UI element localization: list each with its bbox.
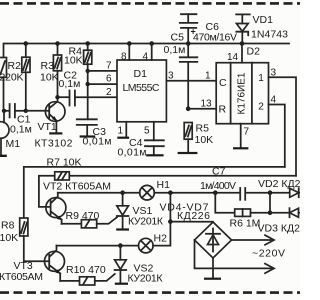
wire pin4 stem <box>151 44 153 61</box>
wire riser W1 to H2 and bridge <box>153 193 170 246</box>
resistor R5 <box>184 123 192 152</box>
label R9 470 <box>66 210 100 222</box>
svg-text:14: 14 <box>227 52 239 63</box>
zener diode VD1 1N4743 <box>236 14 250 43</box>
node VD2 R6 top <box>268 190 273 195</box>
op-amp timer D1 LM555C box <box>117 60 166 122</box>
frame bottom dashed border <box>0 291 300 294</box>
svg-text:VT2 КТ605АМ: VT2 КТ605АМ <box>43 181 111 193</box>
thyristor VS1 <box>117 193 129 229</box>
label 1м/400V <box>200 180 236 192</box>
wire pin8 stem <box>128 44 130 61</box>
label 0,01м C4 <box>118 147 147 159</box>
label C4 <box>129 137 143 149</box>
label H1 <box>157 179 171 191</box>
wire pin5 stem D1 <box>153 122 155 141</box>
svg-text:VD1: VD1 <box>253 14 274 26</box>
ground bridge <box>204 278 221 280</box>
label КД226 bridge <box>177 210 210 222</box>
svg-text:R7 10K: R7 10K <box>47 157 82 169</box>
node rail-VD1-pin14 <box>240 41 245 46</box>
wire pin3 D1 to pin1 C D2 <box>166 80 216 82</box>
svg-text:М1: М1 <box>6 138 21 150</box>
svg-text:0,1м: 0,1м <box>59 78 81 90</box>
label VT2 КТ605АМ <box>43 181 111 193</box>
svg-text:R3: R3 <box>41 60 55 72</box>
svg-text:R: R <box>219 104 227 116</box>
wire bridge right to mains arrow 1 <box>232 235 275 245</box>
label 10K R8 <box>0 232 18 244</box>
label VD3 КД226 <box>258 223 312 235</box>
svg-text:D1: D1 <box>134 68 148 80</box>
node rail-R4 <box>85 41 90 46</box>
svg-text:VT1: VT1 <box>38 121 57 133</box>
wire R1 to C1 node <box>3 77 5 111</box>
svg-text:1: 1 <box>205 71 211 82</box>
label C7 <box>212 166 226 178</box>
svg-text:0,1м: 0,1м <box>164 44 186 56</box>
wire R6 riser from W1 <box>215 193 234 213</box>
label C5 <box>171 32 185 44</box>
svg-text:КД226: КД226 <box>177 210 210 222</box>
node W1 R6 riser <box>213 190 218 195</box>
svg-text:4: 4 <box>143 52 149 63</box>
capacitor C5 <box>180 44 198 109</box>
label pin 3 out D2 <box>271 68 277 79</box>
node rail-C5C6 <box>186 41 191 46</box>
label C input D2 <box>219 77 227 89</box>
label LM555C <box>123 82 160 94</box>
svg-text:R9 470: R9 470 <box>66 210 100 222</box>
wire C1 to VT1 base <box>26 110 49 112</box>
diode VD2 <box>290 188 300 197</box>
svg-text:0,01м: 0,01м <box>83 136 112 148</box>
wire VD2-VD3 vertical <box>269 193 271 213</box>
wire riser to bridge top <box>170 221 213 223</box>
node rail-R2 <box>24 41 29 46</box>
wire output2 D2 to line A <box>269 105 285 167</box>
ground VS2 <box>115 283 128 285</box>
label 470м/16V <box>193 32 237 44</box>
transistor VT2 <box>46 193 66 224</box>
lamp H1 <box>140 185 155 200</box>
label R2 <box>8 60 22 72</box>
transistor VT1 <box>45 97 65 132</box>
label R4 <box>69 46 83 58</box>
svg-text:C7: C7 <box>212 166 226 178</box>
label pin 7 D2 <box>244 127 250 138</box>
svg-text:6: 6 <box>106 74 112 85</box>
ground R5 <box>178 152 198 154</box>
svg-text:КУ201К: КУ201К <box>128 273 164 285</box>
ground VS1 <box>116 228 129 230</box>
label R6 1M <box>230 218 261 230</box>
label 10K R5 <box>195 134 214 146</box>
node R4 line pin7 <box>86 69 90 73</box>
lamp H2 <box>139 238 154 253</box>
resistor R2 <box>22 44 30 111</box>
wire VT3 collector row to H2 <box>57 245 139 247</box>
label D2 <box>247 46 261 58</box>
ground pin1 D1 <box>117 137 129 139</box>
node riser bridge tap <box>168 219 173 224</box>
svg-text:4: 4 <box>271 95 277 106</box>
node C5 R5 pin13 <box>186 107 191 112</box>
svg-text:10K: 10K <box>0 232 18 244</box>
node R4 line pin6 <box>86 82 90 86</box>
svg-text:VT3: VT3 <box>14 260 33 272</box>
wire pin13 D2 <box>188 108 216 110</box>
label C2 <box>64 70 78 82</box>
svg-text:R2: R2 <box>8 60 22 72</box>
label 0,1м C1 <box>10 124 32 136</box>
wire pin7 D1 <box>88 70 117 72</box>
bridge rectifier VD4-VD7 diamond <box>195 222 232 258</box>
svg-text:D2: D2 <box>247 46 261 58</box>
wire VT2 emitter to R9 <box>62 223 82 225</box>
svg-text:КТ605АМ: КТ605АМ <box>0 271 43 283</box>
resistor R10 <box>80 277 95 285</box>
label 10K R4 <box>64 55 83 67</box>
node VS2 anode <box>118 243 123 248</box>
label pin 1 D2 <box>205 71 211 82</box>
label VD2 КД226 <box>258 178 312 190</box>
capacitor C2 <box>58 91 118 106</box>
label КТ3102 <box>35 138 73 150</box>
thyristor VS2 <box>115 246 127 283</box>
ground VT1 emitter <box>49 132 62 134</box>
label VT1 <box>38 121 57 133</box>
svg-text:R10 470: R10 470 <box>66 264 106 276</box>
svg-text:R8: R8 <box>1 220 15 232</box>
label pin 2 D1 <box>106 87 112 98</box>
node VS1 anode <box>120 190 125 195</box>
svg-text:VD2 КД226: VD2 КД226 <box>258 178 300 190</box>
wire pin7 stem D2 <box>240 124 242 148</box>
wire pin6 D1 <box>88 83 117 85</box>
label 1N4743 <box>251 29 288 41</box>
wire output1 D2 to line B <box>269 77 297 176</box>
svg-text:5: 5 <box>144 126 150 137</box>
svg-text:КУ201К: КУ201К <box>128 216 164 228</box>
ground C4 <box>146 154 163 156</box>
svg-text:470м/16V: 470м/16V <box>193 32 237 44</box>
svg-text:10K: 10K <box>40 72 59 84</box>
wire R10 to VS2 gate <box>95 274 115 281</box>
svg-text:2: 2 <box>258 102 264 113</box>
label КУ201К VS1 <box>128 216 164 228</box>
wire pin14 stem D2 <box>241 44 243 63</box>
svg-text:8: 8 <box>121 52 127 63</box>
svg-text:R6 1M: R6 1M <box>230 218 261 230</box>
wire bridge left to mains arrow 2 <box>195 240 275 273</box>
label 220K <box>0 72 24 84</box>
label C3 <box>93 126 107 138</box>
counter D2 K176IE1 box <box>216 63 268 124</box>
label pin 4 out D2 <box>271 95 277 106</box>
label КТ605АМ VT3 <box>0 271 43 283</box>
resistor R7 <box>55 172 70 180</box>
label R5 <box>196 123 210 135</box>
frame top dashed border <box>0 2 300 5</box>
svg-text:1: 1 <box>258 73 264 84</box>
wire pin1 stem D1 <box>125 122 127 137</box>
label + C6 <box>191 27 196 37</box>
capacitor C4 <box>145 140 164 154</box>
svg-text:7: 7 <box>106 61 112 72</box>
label pin 13 D2 <box>201 99 213 110</box>
resistor R9 <box>81 220 96 228</box>
label 0,1м C5 <box>164 44 186 56</box>
svg-text:LM555C: LM555C <box>123 82 160 94</box>
label VS2 <box>134 263 154 275</box>
label pin 4 <box>143 52 149 63</box>
transistor VT3 <box>45 246 65 281</box>
label C6 <box>206 21 220 33</box>
node R3-C2-VT1 collector <box>55 95 59 99</box>
label КУ201К VS2 <box>128 273 164 285</box>
resistor R8 <box>20 218 50 261</box>
diode VD3 <box>270 208 300 217</box>
wire bridge bottom to ground <box>212 258 214 278</box>
label pin 5 D1 <box>144 126 150 137</box>
resistor R3 <box>53 44 61 98</box>
svg-text:H1: H1 <box>157 179 171 191</box>
microphone M1 <box>0 111 9 157</box>
svg-text:H2: H2 <box>154 233 168 245</box>
svg-text:1м/400V: 1м/400V <box>200 180 236 192</box>
resistor R1 (clipped at left edge) <box>0 58 7 78</box>
node C1 left <box>2 109 6 113</box>
label R3 <box>41 60 55 72</box>
label R input D2 <box>219 104 227 116</box>
capacitor C6 electrolytic <box>180 14 198 43</box>
svg-text:R5: R5 <box>196 123 210 135</box>
node W1 riser H2 <box>168 190 173 195</box>
label C1 <box>17 114 31 126</box>
resistor R6 <box>235 209 270 216</box>
svg-text:220K: 220K <box>0 72 24 84</box>
label VS1 <box>133 205 153 217</box>
svg-text:7: 7 <box>244 127 250 138</box>
svg-text:0,1м: 0,1м <box>10 124 32 136</box>
svg-text:3: 3 <box>168 71 174 82</box>
label M1 <box>6 138 21 150</box>
svg-text:10K: 10K <box>64 55 83 67</box>
wire top supply rail <box>4 44 290 58</box>
svg-text:C: C <box>219 77 227 89</box>
wire line B out1 to VT2 base <box>39 176 296 207</box>
node rail-R3 <box>55 41 60 46</box>
label H2 <box>154 233 168 245</box>
label К176ИЕ1 rotated <box>237 72 248 114</box>
svg-text:~220V: ~220V <box>252 248 285 260</box>
svg-text:К176ИЕ1: К176ИЕ1 <box>237 72 248 114</box>
resistor R4 <box>84 44 92 120</box>
svg-text:VD3 КД226: VD3 КД226 <box>258 223 301 235</box>
label 0,01м C3 <box>83 136 112 148</box>
label ~220V <box>252 248 285 260</box>
wire VT3 emitter to R10 <box>60 280 79 282</box>
svg-text:C5: C5 <box>171 32 185 44</box>
svg-text:13: 13 <box>201 99 213 110</box>
node rail-pin4 <box>149 41 154 46</box>
node VD3 R6 bottom <box>268 210 273 215</box>
node C1 right R2 <box>24 109 28 113</box>
ground pin7 D2 <box>233 147 248 149</box>
label pin 7 D1 <box>106 61 112 72</box>
label pin 1 D1 <box>118 126 124 137</box>
label 0,1м C2 <box>59 78 81 90</box>
label D1 <box>134 68 148 80</box>
svg-text:1: 1 <box>118 126 124 137</box>
capacitor C1 <box>4 104 26 117</box>
label VT3 <box>14 260 33 272</box>
label pin 3 D1 <box>168 71 174 82</box>
svg-text:10K: 10K <box>195 134 214 146</box>
label 10K R3 <box>40 72 59 84</box>
label VD4-VD7 <box>160 202 209 214</box>
wire W1 VT2 collector to H1 <box>58 192 140 194</box>
node rail-pin8 <box>127 41 132 46</box>
label pin 14 D2 <box>227 52 239 63</box>
svg-text:КТ3102: КТ3102 <box>35 138 73 150</box>
label output 2 D2 <box>258 102 264 113</box>
wire R9 to VS1 gate <box>97 217 117 224</box>
label R8 <box>1 220 15 232</box>
label pin 6 D1 <box>106 74 112 85</box>
label VD1 <box>253 14 274 26</box>
wire line A out2 to R8 <box>24 167 285 218</box>
label R10 470 <box>66 264 106 276</box>
svg-text:0,01м: 0,01м <box>118 147 147 159</box>
wire W1 H1 to C7 <box>154 192 239 194</box>
capacitor C7 <box>240 188 290 200</box>
svg-text:3: 3 <box>271 68 277 79</box>
label R7 10K <box>47 157 82 169</box>
svg-text:1N4743: 1N4743 <box>251 29 288 41</box>
capacitor C3 <box>77 119 97 135</box>
svg-text:2: 2 <box>106 87 112 98</box>
label pin 8 <box>121 52 127 63</box>
label output 1 D2 <box>258 73 264 84</box>
ground C3 <box>80 135 96 137</box>
